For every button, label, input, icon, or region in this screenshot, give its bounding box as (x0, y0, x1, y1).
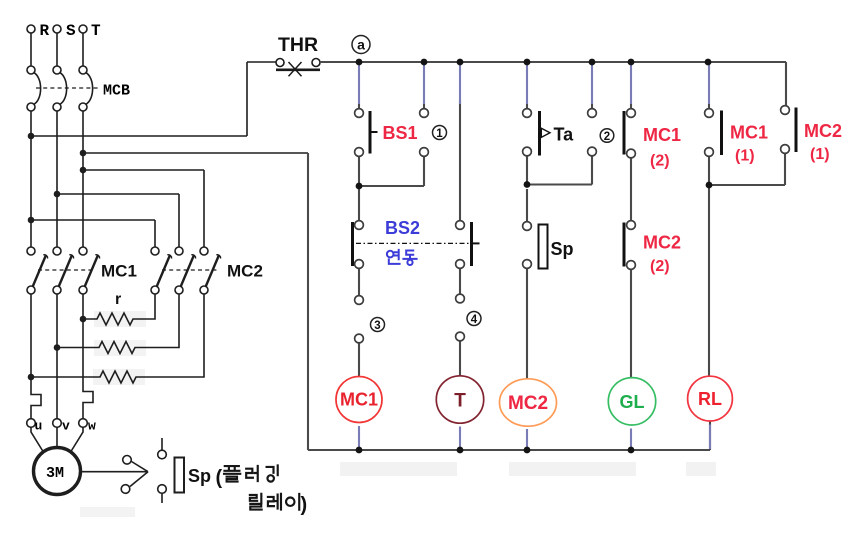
svg-text:MC1: MC1 (340, 390, 378, 410)
svg-text:T: T (91, 22, 101, 40)
svg-text:v: v (62, 419, 70, 434)
svg-text:3M: 3M (46, 465, 64, 482)
svg-text:): ) (301, 494, 308, 516)
svg-text:Sp: Sp (551, 239, 574, 259)
svg-text:u: u (35, 419, 43, 434)
svg-text:Sp: Sp (188, 466, 211, 486)
svg-text:MC1: MC1 (643, 125, 681, 145)
svg-text:MC2: MC2 (804, 121, 842, 141)
svg-text:r: r (115, 291, 121, 308)
svg-text:T: T (454, 391, 466, 412)
svg-text:MC2: MC2 (643, 233, 681, 253)
svg-text:1: 1 (436, 128, 443, 140)
svg-text:BS2: BS2 (385, 218, 420, 238)
svg-text:THR: THR (278, 34, 318, 56)
svg-text:GL: GL (620, 392, 645, 412)
svg-text:MC1: MC1 (730, 123, 768, 143)
svg-text:MC2: MC2 (508, 393, 548, 414)
svg-text:(2): (2) (650, 153, 670, 170)
svg-text:4: 4 (471, 314, 478, 326)
svg-text:RL: RL (698, 389, 722, 409)
svg-text:(1): (1) (810, 146, 830, 163)
svg-text:2: 2 (604, 131, 610, 143)
svg-text:MC2: MC2 (227, 262, 263, 281)
svg-text:w: w (88, 419, 96, 434)
svg-text:S: S (66, 22, 76, 40)
svg-text:(1): (1) (735, 148, 755, 165)
svg-text:MC1: MC1 (101, 262, 137, 281)
svg-text:MCB: MCB (103, 83, 130, 100)
svg-text:a: a (357, 37, 365, 53)
svg-text:(: ( (216, 467, 223, 489)
svg-text:R: R (40, 22, 50, 40)
svg-text:3: 3 (374, 320, 380, 332)
svg-text:BS1: BS1 (383, 123, 418, 143)
svg-text:(2): (2) (650, 258, 670, 275)
svg-text:Ta: Ta (554, 125, 575, 145)
